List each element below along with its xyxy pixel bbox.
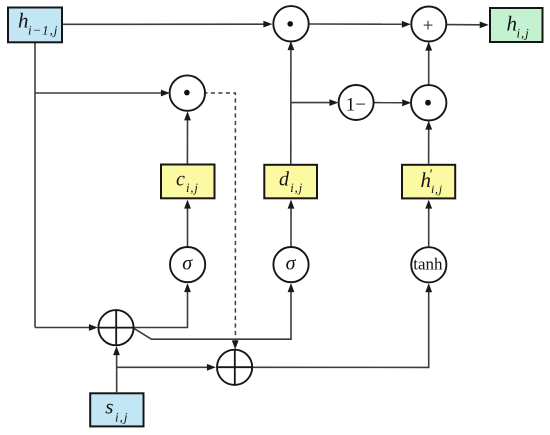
svg-text:σ: σ: [286, 253, 297, 275]
output box h_{i,j}: [490, 8, 543, 42]
product node P1 (elementwise multiply, top): [273, 6, 308, 41]
product node P2 (elementwise multiply, left middle): [170, 75, 205, 110]
svg-text:tanh: tanh: [413, 255, 443, 274]
wire adder X2 to tanh: [252, 283, 432, 367]
svg-text:′: ′: [430, 168, 433, 183]
svg-text:i,j: i,j: [186, 181, 199, 195]
wire branch d to one-minus node: [291, 99, 339, 106]
input box h_{i-1,j}: [8, 8, 62, 43]
candidate box h'_{i,j}: [402, 165, 455, 199]
sigma2 unit (right): [273, 247, 308, 282]
svg-text:h: h: [507, 12, 518, 36]
wire s_{i,j} up to adder X1: [113, 346, 120, 392]
wire trunk to adder X1: [35, 324, 98, 331]
svg-text:i−1,j: i−1,j: [28, 23, 58, 38]
wire sigma1 up to c_{i,j}: [184, 200, 191, 247]
input box s_{i,j}: [90, 393, 143, 426]
sigma1 unit (left): [170, 247, 205, 282]
tanh unit: [411, 247, 446, 282]
svg-text:d: d: [279, 169, 290, 191]
wire sigma2 up to d_{i,j}: [288, 200, 295, 247]
svg-text:i,j: i,j: [115, 409, 128, 424]
adder X1 (circled plus, left bottom): [98, 310, 133, 345]
adder X2 (circled plus, bottom middle): [217, 350, 252, 385]
sum node S1 (plus, top right): [411, 7, 446, 42]
svg-text:i,j: i,j: [431, 182, 443, 196]
wire adder X1 diagonal to sigma2: [134, 283, 294, 339]
dashed wire product P2 to adder X2: [205, 93, 238, 349]
wire branch s to adder X2: [117, 364, 216, 371]
svg-text:σ: σ: [182, 253, 193, 275]
svg-text:i,j: i,j: [517, 26, 530, 41]
one-minus node (1-): [339, 85, 374, 120]
gate box c_{i,j}: [161, 165, 215, 199]
svg-text:s: s: [105, 395, 113, 419]
svg-text:c: c: [176, 169, 185, 191]
wire h_{i-1,j} right to product node P1: [63, 21, 272, 28]
wire c_{i,j} up to product node P2: [184, 111, 191, 163]
wire product P1 to sum node S1: [310, 21, 411, 28]
wire tanh up to h'_{i,j}: [425, 200, 432, 247]
wire d_{i,j} up to product node P1: [288, 41, 295, 164]
wire h_{i-1,j} bottom vertical trunk: [34, 43, 36, 328]
wire one-minus node to product node P3: [374, 99, 412, 106]
wire adder X1 to sigma1: [134, 283, 191, 327]
wire product P3 up to sum node S1: [425, 42, 432, 86]
wire branch to product node P2: [35, 90, 170, 97]
svg-text:1−: 1−: [346, 94, 366, 115]
svg-text:i,j: i,j: [290, 181, 303, 195]
gate box d_{i,j}: [264, 165, 317, 199]
product node P3 (elementwise multiply, right middle): [411, 85, 446, 120]
svg-text:h: h: [18, 9, 29, 33]
wire h'_{i,j} up to product node P3: [425, 121, 432, 164]
wire sum node S1 to output box h_{i,j}: [446, 22, 488, 29]
